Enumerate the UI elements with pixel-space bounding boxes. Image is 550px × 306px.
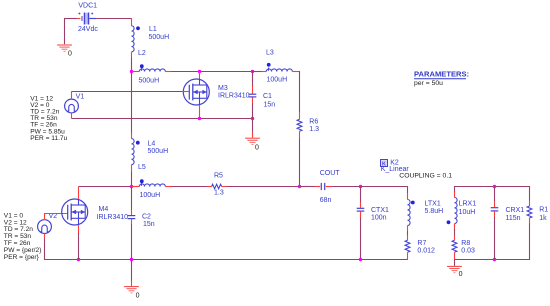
wire VDC1 negative lead down to ground — [64, 18, 66, 44]
svg-text:L2: L2 — [138, 50, 146, 57]
text PARAMETERS heading — [414, 70, 469, 79]
svg-text:IRLR3410: IRLR3410 — [97, 214, 129, 221]
wire L5 to R5 — [171, 186, 207, 188]
svg-text:0: 0 — [136, 292, 140, 299]
label LRX1 — [459, 201, 477, 208]
label CTX1 — [371, 207, 389, 214]
svg-text:24Vdc: 24Vdc — [78, 26, 98, 33]
svg-text:1.3: 1.3 — [309, 126, 319, 133]
resistor R1 — [527, 206, 532, 218]
V2 parameters text — [4, 212, 42, 260]
svg-text:500uH: 500uH — [149, 34, 170, 41]
label V1 — [76, 93, 85, 100]
inductor LTX1 pin bottom — [407, 226, 409, 232]
svg-text:68n: 68n — [320, 197, 332, 204]
ground symbol 0 (bottom middle) — [124, 287, 139, 293]
inductor LRX1 pin bottom — [454, 224, 456, 230]
svg-text:V1: V1 — [76, 93, 85, 100]
label R6 — [309, 119, 318, 126]
wire node A down to L4 — [131, 72, 133, 133]
wire V1 bottom to C1 bottom rail — [72, 118, 253, 120]
pulse source V1 top pin — [71, 92, 73, 100]
pulse source V2 — [38, 220, 52, 234]
value label 100n (CTX1) — [371, 215, 387, 222]
dc source VDC1 battery symbol — [77, 13, 96, 25]
resistor R5 — [212, 184, 222, 189]
svg-text:M3: M3 — [218, 85, 228, 92]
inductor LTX1 phase dot — [411, 201, 415, 205]
inductor L1 pin bottom — [131, 52, 133, 58]
junction dot CTX1 bottom — [359, 258, 362, 261]
wire R6 node to COUT — [300, 186, 315, 188]
mosfet M4 drain lead up — [78, 187, 80, 200]
value label 1.3 (R6) — [309, 126, 319, 133]
svg-text:100uH: 100uH — [267, 77, 288, 84]
junction dot R6 bottom — [298, 185, 301, 188]
label COUT — [320, 170, 341, 177]
inductor L3 — [266, 68, 292, 72]
svg-text:R1: R1 — [539, 207, 548, 214]
wire corner to LRX1 — [454, 186, 456, 192]
inductor LTX1 — [408, 200, 411, 226]
capacitor C2 bottom lead — [131, 219, 133, 259]
svg-text:C2: C2 — [142, 214, 151, 221]
mosfet M4 IRLR3410 — [62, 199, 88, 225]
svg-text:R6: R6 — [309, 119, 318, 126]
svg-text:5.8uH: 5.8uH — [425, 208, 444, 215]
capacitor C1 — [249, 94, 257, 97]
pulse source V2 top pin — [44, 213, 46, 220]
capacitor COUT pin left — [315, 186, 320, 188]
label R1 — [539, 207, 548, 214]
capacitor CRX1 — [491, 208, 499, 211]
ground symbol 0 (secondary) — [447, 266, 462, 272]
V1 parameters text — [30, 95, 67, 142]
wire primary bottom rail — [45, 259, 408, 261]
wire LRX1 to R8 — [454, 229, 456, 236]
wire R1 bottom lead — [529, 224, 531, 261]
label R8 — [461, 240, 470, 247]
svg-text:15n: 15n — [143, 221, 155, 228]
capacitor COUT pin right — [326, 186, 332, 188]
inductor L2 phase dot — [140, 64, 144, 68]
value label 0.012 (R7) — [417, 248, 435, 255]
ground label 0 (top left) — [68, 51, 72, 58]
svg-text:IRLR3410: IRLR3410 — [218, 92, 250, 99]
inductor L4 — [132, 139, 135, 165]
svg-text:PER = 11.7u: PER = 11.7u — [30, 135, 67, 142]
junction dot CRX1 bottom — [493, 258, 496, 261]
label K2 — [390, 159, 399, 166]
ground symbol 0 (top left) — [57, 45, 72, 51]
inductor L2 pin left — [132, 71, 140, 73]
svg-text:VDC1: VDC1 — [78, 3, 97, 10]
inductor L2 — [139, 68, 165, 72]
wire V2 bottom to rail — [44, 239, 46, 260]
wire COUT to CTX1 node — [332, 186, 361, 188]
capacitor C2 — [128, 216, 136, 219]
svg-text:1.3: 1.3 — [214, 189, 224, 196]
label M3 — [218, 85, 228, 92]
inductor L4 phase dot — [136, 141, 140, 145]
value label 1k (R1) — [539, 215, 547, 222]
ground label 0 (secondary) — [459, 271, 463, 278]
label L5 — [138, 164, 146, 171]
junction dot M3 source — [198, 117, 201, 120]
resistor R6 pin top — [299, 112, 301, 119]
value label 500uH (L2) — [139, 77, 160, 84]
svg-text:0: 0 — [459, 271, 463, 278]
value label IRLR3410 (M4) — [97, 214, 129, 221]
pulse source V1 bottom pin — [71, 113, 73, 119]
resistor R7 pin top — [407, 236, 409, 241]
value label 500uH (L1) — [149, 34, 170, 41]
resistor R8 pin top — [454, 236, 456, 241]
wire secondary top rail — [455, 186, 530, 188]
value label 1.3 (R5) — [214, 189, 224, 196]
label LTX1 — [425, 201, 441, 208]
wire V2 to M4 gate — [45, 213, 68, 215]
svg-text:PARAMETERS:: PARAMETERS: — [414, 70, 469, 79]
value label 500uH (L4) — [148, 148, 169, 155]
value label 0.03 (R8) — [461, 248, 475, 255]
label L1 — [149, 26, 157, 33]
wire LTX1 to R7 — [407, 231, 409, 236]
capacitor CRX1 bottom lead — [494, 211, 496, 259]
svg-text:10uH: 10uH — [459, 209, 476, 216]
svg-text:115n: 115n — [506, 215, 521, 222]
wire CTX1 node to LTX1 corner — [361, 186, 409, 188]
label C1 — [263, 93, 272, 100]
label VDC1 — [78, 3, 97, 10]
inductor L4 pin top — [131, 133, 133, 139]
wire top-left from VDC1 to ground corner — [65, 18, 78, 20]
node B junction dot (L4/L5/M4) — [130, 185, 133, 188]
wire M4 drain corner to node B — [79, 186, 132, 188]
inductor L5 pin right — [165, 186, 171, 188]
value label IRLR3410 (M3) — [218, 92, 250, 99]
label R5 — [214, 173, 223, 180]
value label 10uH (LRX1) — [459, 209, 476, 216]
capacitor CTX1 — [357, 208, 365, 211]
node A junction dot (L1/L2/L4) — [130, 70, 133, 73]
svg-text:100uH: 100uH — [140, 192, 161, 199]
svg-text:1k: 1k — [539, 215, 547, 222]
inductor L5 phase dot — [140, 179, 144, 183]
value label 68n (COUT) — [320, 197, 332, 204]
mosfet M3 drain lead — [199, 72, 201, 80]
label L4 — [148, 141, 156, 148]
value label 15n (C2) — [143, 221, 155, 228]
pulse source V2 bottom pin — [44, 233, 46, 238]
mosfet M4 source lead — [78, 225, 80, 260]
resistor R1 pin bottom — [529, 218, 531, 224]
value label COUPLING = 0.1 — [399, 173, 452, 180]
wire C1 to ground — [252, 119, 254, 138]
label CRX1 — [506, 207, 525, 214]
svg-text:500uH: 500uH — [148, 148, 169, 155]
wire L1 to node A — [131, 58, 133, 72]
svg-text:COUPLING = 0.1: COUPLING = 0.1 — [399, 173, 452, 180]
svg-text:CRX1: CRX1 — [506, 207, 525, 214]
wire V1 to M3 gate — [72, 91, 183, 93]
svg-text:per = 50u: per = 50u — [414, 80, 443, 87]
wire L3 to R6 — [299, 71, 301, 112]
value label 24Vdc — [78, 26, 98, 33]
svg-text:V2: V2 — [49, 213, 58, 220]
resistor R7 pin bottom — [407, 252, 409, 260]
inductor L1 — [132, 26, 135, 52]
capacitor CRX1 top lead — [494, 187, 496, 208]
inductor L3 phase dot — [267, 63, 271, 67]
label L2 — [138, 50, 146, 57]
wire R5 to R6 node — [227, 186, 300, 188]
value label 100uH (L3) — [267, 77, 288, 84]
resistor R6 — [297, 119, 302, 131]
capacitor C1 bottom lead — [252, 97, 254, 118]
resistor R5 pin left — [207, 186, 212, 188]
junction dot M4 source bottom — [77, 258, 80, 261]
inductor L3 pin right — [292, 71, 299, 73]
value label K_Linear — [381, 166, 410, 173]
label C2 — [142, 214, 151, 221]
wire C1 top to L3 — [253, 71, 262, 73]
svg-text:L5: L5 — [138, 164, 146, 171]
svg-text:0: 0 — [68, 51, 72, 58]
svg-text:L4: L4 — [148, 141, 156, 148]
junction dot CTX1 top — [359, 185, 362, 188]
text per = 50u — [414, 80, 443, 87]
resistor R5 pin right — [222, 186, 227, 188]
inductor LTX1 pin top — [407, 193, 409, 200]
resistor R6 pin bottom — [299, 131, 301, 138]
svg-text:L3: L3 — [266, 50, 274, 57]
junction dot M3 drain — [198, 70, 201, 73]
capacitor C2 top lead — [131, 187, 133, 216]
svg-text:COUT: COUT — [320, 170, 341, 177]
ground label 0 (below C1) — [255, 144, 259, 151]
ground symbol 0 (below C1) — [245, 138, 260, 144]
svg-text:15n: 15n — [264, 101, 276, 108]
mosfet M3 source lead — [199, 105, 201, 119]
resistor R8 pin bottom — [454, 252, 456, 260]
svg-text:R8: R8 — [461, 240, 470, 247]
svg-text:LRX1: LRX1 — [459, 201, 477, 208]
label R7 — [417, 240, 426, 247]
label M4 — [99, 206, 109, 213]
mosfet M3 IRLR3410 — [183, 79, 209, 105]
junction dot C2 bottom — [130, 258, 133, 261]
svg-text:LTX1: LTX1 — [425, 201, 441, 208]
wire secondary ground stub — [454, 260, 456, 266]
resistor R8 — [452, 240, 457, 252]
pulse source V1 — [65, 99, 79, 113]
svg-text:PER = {per}: PER = {per} — [4, 254, 40, 261]
value label 5.8uH (LTX1) — [425, 208, 444, 215]
junction dot C1 bottom — [251, 117, 254, 120]
coupling symbol K2 box — [381, 160, 388, 168]
wire R1 top lead — [529, 186, 531, 201]
wire VDC1 to L1 corner — [96, 18, 132, 20]
capacitor CTX1 bottom lead — [360, 212, 362, 260]
junction dot C1 top — [251, 70, 254, 73]
svg-text:0: 0 — [255, 144, 259, 151]
wire R6 to output rail — [299, 139, 301, 187]
inductor L4 pin bottom — [131, 165, 133, 172]
svg-text:R5: R5 — [214, 173, 223, 180]
junction dot CRX1 top — [493, 185, 496, 188]
wire L4 to node B — [131, 172, 133, 187]
resistor R1 pin top — [529, 201, 531, 207]
capacitor C1 top lead — [252, 72, 254, 94]
value label 115n (CRX1) — [506, 215, 521, 222]
capacitor CTX1 top lead — [360, 187, 362, 208]
value label 100uH (L5) — [140, 192, 161, 199]
ground label 0 (bottom middle) — [136, 292, 140, 299]
inductor L1 pin top — [131, 18, 133, 26]
svg-text:0.03: 0.03 — [461, 248, 475, 255]
svg-text:100n: 100n — [371, 215, 387, 222]
label L3 — [266, 50, 274, 57]
label V2 — [49, 213, 58, 220]
svg-text:0.012: 0.012 — [417, 248, 435, 255]
wire secondary bottom rail — [455, 259, 530, 261]
inductor L3 pin left — [262, 71, 267, 73]
wire C2 node to ground — [131, 260, 133, 287]
inductor LRX1 phase dot — [447, 220, 451, 224]
inductor LRX1 — [455, 198, 458, 224]
mosfet M3 gate lead — [182, 91, 189, 93]
svg-text:L1: L1 — [149, 26, 157, 33]
value label 15n (C1) — [264, 101, 276, 108]
inductor L5 pin left — [132, 186, 140, 188]
wire L2 to C1 top rail — [171, 71, 253, 73]
inductor L2 pin right — [165, 71, 171, 73]
svg-text:CTX1: CTX1 — [371, 207, 389, 214]
inductor LRX1 pin top — [454, 192, 456, 198]
svg-text:M4: M4 — [99, 206, 109, 213]
svg-text:C1: C1 — [263, 93, 272, 100]
svg-text:500uH: 500uH — [139, 77, 160, 84]
inductor L1 phase dot — [136, 26, 140, 30]
resistor R7 — [405, 240, 410, 252]
svg-text:R7: R7 — [417, 240, 426, 247]
inductor L5 — [139, 183, 165, 187]
capacitor COUT — [321, 183, 324, 190]
wire corner to LTX1 — [407, 186, 409, 193]
